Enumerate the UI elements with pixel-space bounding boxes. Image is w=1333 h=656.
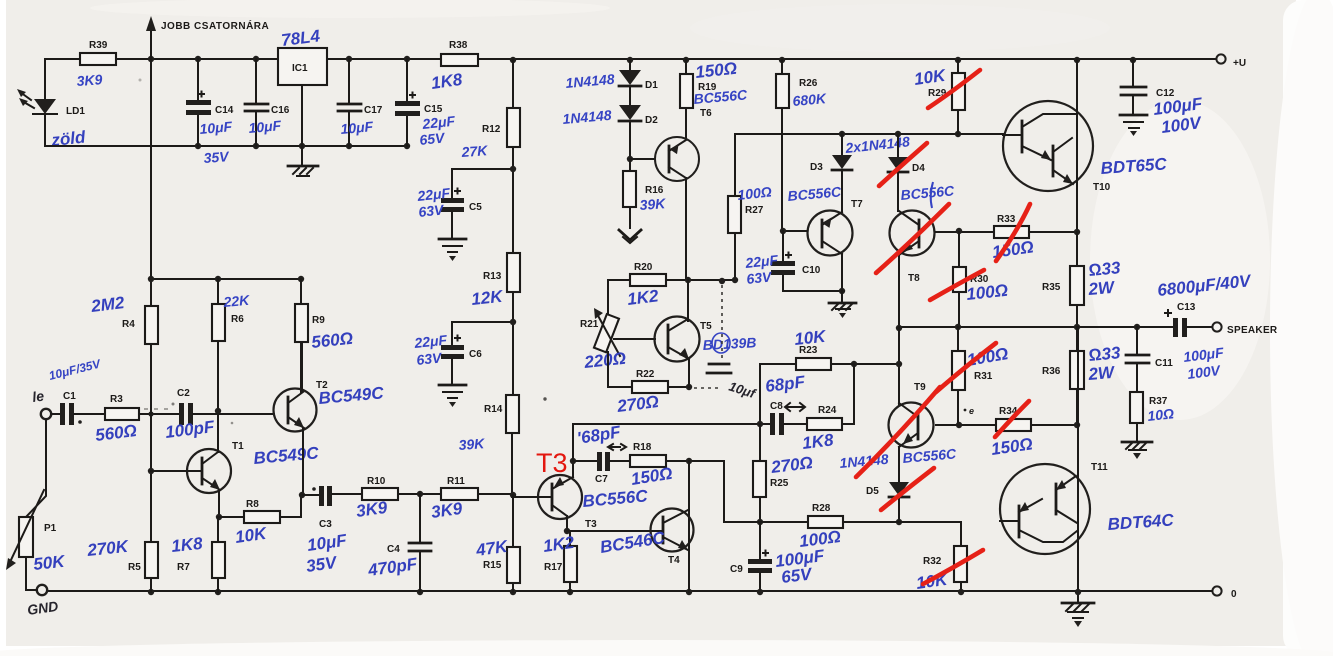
resistor R37	[1130, 392, 1175, 441]
svg-text:R18: R18	[633, 442, 652, 453]
resistor R33	[956, 214, 1080, 262]
svg-text:R22: R22	[636, 369, 655, 380]
ground under T11	[1062, 593, 1094, 627]
svg-text:R39: R39	[89, 40, 108, 51]
svg-text:R26: R26	[799, 78, 818, 89]
svg-text:e: e	[969, 406, 974, 416]
wire T3 emitter to feedback node	[572, 424, 574, 461]
svg-text:R17: R17	[544, 562, 563, 573]
svg-text:C4: C4	[387, 544, 400, 555]
svg-text:T6: T6	[700, 108, 712, 119]
svg-text:R24: R24	[818, 405, 837, 416]
svg-text:65V: 65V	[419, 129, 447, 148]
red strike over D5	[881, 468, 934, 510]
resistor R18	[630, 442, 724, 489]
resistor R17	[542, 531, 577, 592]
svg-text:39K: 39K	[639, 195, 667, 213]
resistor R35	[1042, 232, 1122, 327]
svg-text:R6: R6	[231, 314, 244, 325]
svg-text:C17: C17	[364, 105, 383, 116]
svg-text:R3: R3	[110, 394, 123, 405]
svg-text:680K: 680K	[792, 90, 828, 109]
svg-text:1K2: 1K2	[626, 286, 660, 309]
transistor T10 BDT65C darlington	[1003, 60, 1168, 232]
resistor R27	[728, 134, 772, 283]
ground under R37	[1122, 442, 1152, 459]
svg-text:T11: T11	[1091, 462, 1108, 473]
resistor R7	[170, 517, 225, 592]
ground under C6	[439, 385, 466, 407]
resistor R8	[219, 495, 301, 547]
red strike over R32	[923, 550, 983, 584]
wire bias rail to T10 base	[735, 131, 1003, 137]
capacitor C1	[47, 356, 105, 425]
transistor T5 BD139	[655, 280, 757, 387]
resistor R11	[430, 476, 516, 522]
resistor R36	[1042, 327, 1122, 425]
resistor R13	[470, 253, 520, 309]
svg-text:C6: C6	[469, 349, 482, 360]
resistor R30	[953, 232, 1009, 327]
svg-text:T9: T9	[914, 382, 926, 393]
transistor T4 BC546C	[567, 461, 694, 592]
red strike over R34	[995, 401, 1029, 437]
svg-text:R31: R31	[974, 371, 993, 382]
capacitor C4	[366, 494, 431, 592]
svg-text:le: le	[31, 387, 45, 404]
terminal 0	[1212, 586, 1237, 600]
svg-text:C9: C9	[730, 564, 743, 575]
svg-text:R4: R4	[122, 319, 135, 330]
resistor R14	[458, 395, 519, 497]
ground under C12	[1120, 115, 1147, 136]
resistor R3	[94, 394, 179, 445]
diode D4	[888, 134, 925, 211]
svg-text:R20: R20	[634, 262, 653, 273]
red strike over R31	[936, 343, 996, 392]
resistor R23	[760, 327, 854, 424]
svg-text:Ω33: Ω33	[1088, 258, 1122, 280]
diode D1	[565, 60, 658, 91]
capacitor C14	[186, 59, 234, 166]
svg-text:R27: R27	[745, 205, 764, 216]
svg-text:T10: T10	[1093, 182, 1111, 193]
svg-text:63V: 63V	[746, 268, 774, 287]
svg-text:R11: R11	[447, 476, 465, 487]
resistor R34	[956, 406, 1080, 459]
terminal +U	[1216, 54, 1246, 69]
resistor R4	[89, 59, 158, 542]
svg-text:10K: 10K	[793, 327, 828, 349]
svg-text:Ω33: Ω33	[1088, 343, 1122, 365]
wire upper rail R4 R6 R9	[148, 276, 304, 282]
svg-text:C1: C1	[63, 391, 76, 402]
svg-text:R16: R16	[645, 185, 664, 196]
svg-text:R7: R7	[177, 562, 190, 573]
transistor T1 BC549C	[151, 441, 320, 520]
capacitor C13	[1156, 271, 1253, 337]
svg-text:0: 0	[1231, 589, 1237, 600]
svg-text:C16: C16	[271, 105, 290, 116]
svg-text:T1: T1	[232, 441, 244, 452]
svg-text:22K: 22K	[222, 292, 251, 310]
wire R18 node to R28	[723, 461, 725, 522]
resistor R24	[784, 364, 854, 453]
resistor R20	[608, 262, 688, 309]
svg-text:D5: D5	[866, 486, 879, 497]
svg-text:T3: T3	[536, 448, 568, 478]
ground under C5	[439, 239, 466, 261]
capacitor C12	[1121, 60, 1204, 137]
ground under T7/C10	[829, 291, 856, 318]
svg-text:JOBB CSATORNÁRA: JOBB CSATORNÁRA	[161, 19, 269, 32]
capacitor C6	[413, 332, 483, 384]
pencil speck marks	[139, 79, 940, 425]
wire +U top rail	[45, 56, 1215, 63]
svg-text:C14: C14	[215, 105, 234, 116]
resistor R10	[355, 476, 441, 521]
wire local ground rail under C14-C17	[45, 143, 410, 149]
svg-text:T3: T3	[585, 519, 597, 530]
svg-text:63V: 63V	[416, 349, 444, 368]
svg-text:C8: C8	[770, 401, 783, 412]
resistor R19	[680, 59, 738, 139]
resistor R16	[623, 159, 667, 228]
svg-text:+U: +U	[1233, 58, 1246, 69]
resistor R9	[295, 279, 354, 392]
LED LD1	[17, 59, 87, 150]
wire VAS collector node	[685, 277, 735, 284]
svg-text:C10: C10	[802, 265, 821, 276]
svg-text:R5: R5	[128, 562, 141, 573]
svg-text:R25: R25	[770, 478, 789, 489]
resistor R25	[753, 424, 814, 525]
capacitor C5	[416, 185, 483, 238]
svg-text:R33: R33	[997, 214, 1016, 225]
svg-text:C7: C7	[595, 474, 608, 485]
svg-text:C5: C5	[469, 202, 482, 213]
red strike over R33	[996, 204, 1030, 261]
transistor T9	[839, 382, 974, 482]
svg-text:R14: R14	[484, 404, 503, 415]
capacitor C9	[730, 522, 826, 593]
diode D5	[866, 482, 909, 525]
transistor T8	[890, 182, 960, 327]
svg-text:R10: R10	[367, 476, 386, 487]
wire output rail to speaker	[896, 324, 1172, 331]
capacitor C8	[573, 372, 806, 435]
svg-text:T4: T4	[668, 555, 680, 566]
resistor R12	[460, 60, 520, 160]
capacitor C7	[573, 422, 630, 485]
svg-text:2W: 2W	[1087, 278, 1117, 299]
red strike over T8	[876, 204, 949, 273]
capacitor C15	[395, 59, 456, 148]
wire T9 emitter node	[851, 327, 902, 405]
diode D3	[810, 133, 911, 173]
svg-text:C3: C3	[319, 519, 332, 530]
pencil capacitor 10u thermal note	[694, 285, 759, 402]
resistor R29	[913, 60, 965, 134]
resistor R38	[430, 40, 478, 93]
svg-text:3K9: 3K9	[76, 71, 103, 89]
transistor T11 BDT64C darlington	[1000, 327, 1175, 593]
svg-text:R38: R38	[449, 40, 468, 51]
transistor T6 BC556C	[655, 86, 749, 280]
red strike over D4	[879, 143, 927, 186]
transistor T2 BC549C	[274, 342, 386, 495]
svg-text:1K8: 1K8	[170, 534, 204, 556]
pencil dashes near C2	[144, 408, 168, 410]
capacitor C10	[744, 231, 846, 294]
svg-text:27K: 27K	[460, 142, 489, 160]
capacitor C16	[245, 59, 290, 146]
svg-text:50K: 50K	[32, 552, 67, 574]
svg-text:12K: 12K	[470, 287, 505, 309]
svg-text:65V: 65V	[780, 564, 814, 587]
svg-text:P1: P1	[44, 523, 57, 534]
svg-text:R15: R15	[483, 560, 502, 571]
svg-text:D2: D2	[645, 115, 658, 126]
svg-text:10μF: 10μF	[199, 118, 233, 137]
potentiometer P1	[6, 419, 67, 590]
capacitor C11	[1126, 327, 1225, 392]
wire R13 to R14 with C6 tap	[452, 292, 516, 395]
ground under IC1	[288, 166, 318, 176]
terminal SPEAKER	[1212, 322, 1278, 336]
svg-text:D3: D3	[810, 162, 823, 173]
svg-text:T5: T5	[700, 321, 712, 332]
svg-text:R9: R9	[312, 315, 325, 326]
node JOBB CSATORNARA arrow	[146, 16, 269, 59]
svg-text:R8: R8	[246, 499, 259, 510]
svg-text:IC1: IC1	[292, 63, 308, 74]
svg-text:R13: R13	[483, 271, 502, 282]
svg-text:T7: T7	[851, 199, 863, 210]
resistor R32	[915, 522, 967, 593]
red strike over R29	[928, 70, 980, 108]
terminal GND	[26, 585, 59, 618]
svg-text:10Ω: 10Ω	[1147, 405, 1175, 424]
svg-text:R35: R35	[1042, 282, 1061, 293]
wire R12 to R13 with C5 tap	[452, 147, 516, 253]
svg-text:R12: R12	[482, 124, 501, 135]
svg-text:C13: C13	[1177, 302, 1196, 313]
svg-text:1K8: 1K8	[801, 430, 835, 453]
svg-text:D1: D1	[645, 80, 658, 91]
transistor T7	[780, 172, 863, 291]
svg-text:2W: 2W	[1087, 363, 1117, 384]
resistor R28	[724, 503, 961, 551]
red strike over T9	[856, 387, 940, 477]
resistor R31	[952, 327, 1010, 425]
resistor R39	[76, 40, 116, 89]
resistor R15	[474, 495, 520, 592]
svg-text:63V: 63V	[418, 201, 446, 220]
svg-text:R36: R36	[1042, 366, 1061, 377]
wire bottom ground rail	[47, 589, 1212, 595]
svg-text:35V: 35V	[203, 148, 231, 166]
svg-text:R28: R28	[812, 503, 831, 514]
trimmer R21	[580, 280, 655, 387]
ground under R16	[619, 230, 641, 243]
transistor T3 BC556C	[513, 458, 649, 534]
resistor R26	[776, 60, 827, 231]
svg-text:R32: R32	[923, 556, 942, 567]
regulator IC1 7824	[278, 26, 327, 165]
resistor R5	[85, 537, 158, 592]
svg-text:SPEAKER: SPEAKER	[1227, 325, 1278, 336]
svg-text:C2: C2	[177, 388, 190, 399]
resistor R22	[608, 369, 692, 416]
svg-text:C11: C11	[1155, 358, 1173, 369]
svg-text:10μF: 10μF	[248, 117, 282, 136]
svg-text:D4: D4	[912, 163, 925, 174]
node D2 cathode / T6 base / R16	[627, 156, 655, 162]
terminal input le	[31, 387, 51, 419]
red strike over R30	[930, 270, 984, 300]
svg-text:T8: T8	[908, 273, 920, 284]
diode D2	[562, 87, 658, 159]
resistor R6	[212, 279, 251, 452]
svg-text:10μF: 10μF	[340, 118, 374, 137]
capacitor C2	[164, 388, 274, 442]
svg-text:39K: 39K	[458, 435, 486, 453]
svg-text:R21: R21	[580, 319, 599, 330]
capacitor C17	[338, 59, 383, 146]
capacitor C3	[299, 486, 362, 576]
svg-text:LD1: LD1	[66, 106, 85, 117]
